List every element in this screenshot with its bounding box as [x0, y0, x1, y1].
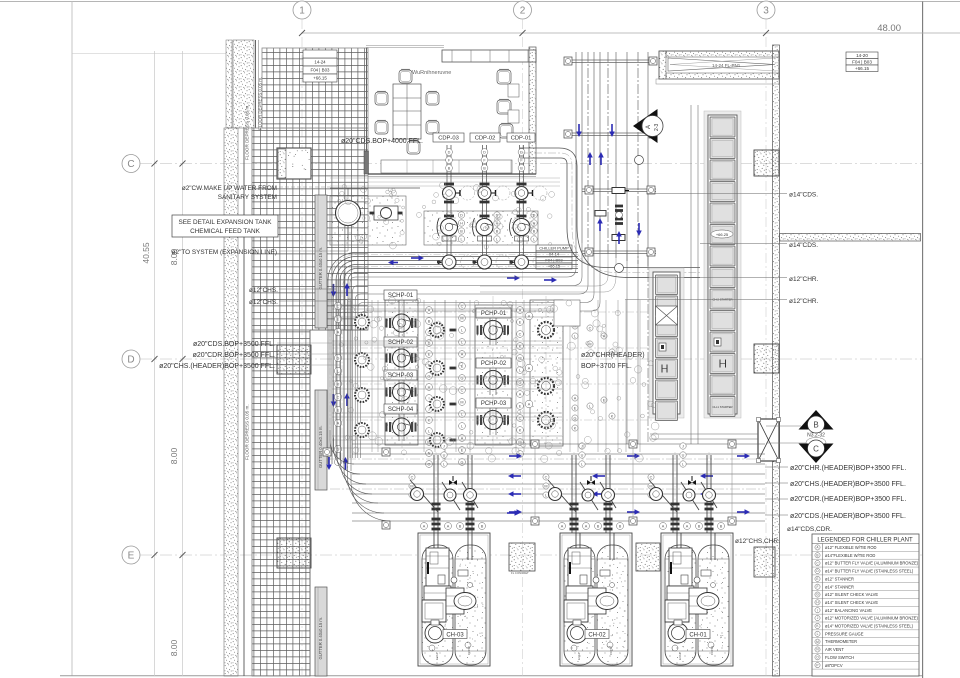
header arrows col 1: [509, 455, 517, 457]
arrow header flow left: [393, 262, 398, 264]
grid bubble 2: [514, 1, 532, 19]
svg-text:A: A: [574, 396, 577, 400]
svg-text:ø14" BUTTER FLY VALVE (STAINLE: ø14" BUTTER FLY VALVE (STAINLESS STEEL): [825, 569, 914, 574]
wall insulation band wide: [226, 40, 232, 128]
arrow riser west: [544, 279, 552, 281]
svg-text:3: 3: [763, 6, 769, 17]
svg-text:L: L: [443, 462, 445, 466]
svg-text:C: C: [545, 475, 548, 479]
svg-text:E: E: [128, 551, 135, 562]
svg-text:C: C: [127, 159, 134, 170]
svg-text:B: B: [459, 524, 462, 528]
svg-text:GUTTER 0.40x0.15 m.: GUTTER 0.40x0.15 m.: [318, 247, 323, 290]
svg-text:B: B: [720, 524, 723, 528]
svg-text:LEGENDED FOR CHILLER PLANT: LEGENDED FOR CHILLER PLANT: [817, 538, 913, 544]
svg-text:COND: COND: [467, 645, 471, 655]
svg-text:ø12" MOTORIZED VALVE (ALUMINIU: ø12" MOTORIZED VALVE (ALUMINIUM BRONZE): [825, 616, 919, 621]
svg-text:CDP-03: CDP-03: [438, 135, 459, 141]
svg-text:A: A: [662, 524, 665, 528]
svg-text:ø12"CHS,CHR.: ø12"CHS,CHR.: [735, 538, 780, 545]
svg-text:B: B: [481, 524, 484, 528]
svg-text:L: L: [581, 462, 583, 466]
svg-text:PCHP-03: PCHP-03: [481, 401, 507, 407]
riser fittings: [612, 188, 625, 194]
svg-text:E: E: [574, 406, 577, 410]
riser arrows: [578, 124, 580, 132]
opening info box: [303, 58, 337, 66]
svg-text:1: 1: [299, 6, 305, 17]
arrow left bundle down 3: [328, 457, 330, 465]
svg-text:L: L: [519, 368, 521, 372]
svg-text:CH-02: CH-02: [588, 633, 606, 639]
dimension line 40.55: [154, 51, 156, 676]
condenser pump assembly: [473, 145, 511, 269]
svg-text:ø14" SILENT CHECK VALVE: ø14" SILENT CHECK VALVE: [825, 600, 878, 605]
pump PCHP-01: [480, 325, 482, 335]
label box SCHP-03: [384, 370, 417, 380]
right wall column D: [754, 344, 779, 373]
matchline symbol: [766, 425, 801, 427]
svg-text:8.00: 8.00: [169, 639, 179, 656]
chair: [375, 92, 388, 105]
svg-text:AIR VENT: AIR VENT: [825, 647, 844, 652]
room bottom counter: [381, 160, 512, 173]
rack left X panel: [656, 306, 678, 325]
arrow header flow: [411, 257, 419, 259]
room top wall: [442, 50, 536, 62]
svg-text:WuRnihneruvne: WuRnihneruvne: [412, 70, 451, 76]
svg-text:ø12"CHS.: ø12"CHS.: [249, 287, 278, 294]
chair: [497, 70, 511, 84]
header dashdot lines: [330, 458, 765, 460]
svg-text:B: B: [448, 166, 451, 170]
grid line E: [140, 554, 922, 556]
svg-text:E: E: [461, 448, 464, 452]
svg-text:ø14" STANNER: ø14" STANNER: [825, 584, 854, 589]
grid bubble 3: [757, 1, 775, 19]
svg-text:M: M: [544, 484, 547, 488]
pump PCHP-02: [480, 375, 482, 385]
svg-text:N: N: [428, 451, 431, 455]
rack level label: [711, 230, 733, 238]
top room pipes across: [330, 177, 560, 179]
svg-text:ø2"TO SYSTEM (EXPANSION LINE): ø2"TO SYSTEM (EXPANSION LINE): [172, 249, 277, 256]
svg-text:ø12" SILENT CHECK VALVE: ø12" SILENT CHECK VALVE: [825, 592, 878, 597]
svg-text:ø20"CDS.BOP+3500 FFL.: ø20"CDS.BOP+3500 FFL.: [193, 341, 275, 348]
label box PCHP-03: [476, 398, 511, 408]
leader make up water: [279, 186, 330, 188]
svg-text:ø20"CDS.BOP+4000 FFL.: ø20"CDS.BOP+4000 FFL.: [341, 138, 423, 145]
grid line 2: [522, 19, 524, 676]
svg-text:GUTTER 0.40x0.15 m.: GUTTER 0.40x0.15 m.: [318, 617, 323, 660]
pump right column: [538, 378, 554, 394]
plant wall line: [309, 330, 311, 676]
arrow chiller top: [507, 512, 515, 514]
svg-text:GUTTER 0.40x0.15 m.: GUTTER 0.40x0.15 m.: [318, 425, 323, 468]
riser arrows mid: [599, 223, 601, 231]
svg-text:E: E: [519, 404, 522, 408]
riser elbows west: [350, 240, 576, 458]
svg-text:48.00: 48.00: [877, 23, 901, 34]
svg-text:C: C: [411, 475, 414, 479]
pump PCHP-03: [480, 415, 482, 425]
interconnect piping vertical: [371, 300, 373, 452]
svg-text:14-24: 14-24: [314, 59, 326, 64]
valve mid column 2: [459, 303, 466, 310]
label box SCHP-01: [384, 290, 417, 300]
wall line upper: [255, 40, 257, 128]
svg-text:CH-01: CH-01: [689, 633, 707, 639]
svg-text:D: D: [448, 150, 451, 154]
svg-text:F04 | B03: F04 | B03: [545, 257, 563, 262]
east riser pipes: [690, 105, 692, 444]
chair: [407, 141, 420, 154]
svg-text:B: B: [816, 553, 818, 557]
arrow left bundle down: [333, 284, 335, 292]
svg-text:A: A: [528, 314, 531, 318]
chiller pump info box: [536, 245, 572, 251]
header arrows col 2: [627, 455, 635, 457]
pipe expansion line: [330, 250, 348, 252]
mid pump column: [444, 300, 446, 460]
wall column D1: [277, 345, 311, 374]
pump SCHP-01: [389, 318, 391, 328]
legend rows: [815, 545, 820, 550]
arrow left bundle up 3: [345, 462, 347, 470]
svg-text:E: E: [519, 320, 522, 324]
room left wall line: [366, 48, 368, 151]
svg-text:SANITARY SYSTEM: SANITARY SYSTEM: [218, 194, 277, 201]
svg-text:F04 | B03: F04 | B03: [852, 59, 872, 64]
right wall horizontal: [780, 234, 921, 242]
svg-text:E: E: [603, 398, 606, 402]
floor slab hatch lower: [252, 330, 310, 676]
header valve boxes: [323, 448, 331, 456]
svg-text:A: A: [528, 402, 531, 406]
svg-text:J: J: [682, 444, 684, 448]
pipe 12CHR b: [625, 299, 787, 301]
svg-text:F04 | B03: F04 | B03: [311, 67, 331, 72]
svg-text:ø14"FLEXIBLE W/TIE ROD: ø14"FLEXIBLE W/TIE ROD: [825, 553, 875, 558]
valve column left of SCHP: [334, 302, 341, 309]
header letter columns: [409, 474, 415, 480]
page border bottom: [60, 675, 922, 677]
chair: [499, 124, 513, 138]
header right stubs: [765, 466, 788, 468]
pump right column: [538, 322, 554, 338]
valve column right of PCHP: [517, 307, 524, 314]
riser bundle from louver: [575, 52, 577, 240]
svg-text:F: F: [817, 585, 819, 589]
valve mid column 1: [426, 307, 433, 314]
grid bubble E: [122, 546, 140, 564]
label box PCHP-01: [476, 308, 511, 318]
svg-text:D: D: [460, 213, 463, 217]
svg-text:ø12"CHS.: ø12"CHS.: [249, 299, 278, 306]
svg-text:THERMOMETER: THERMOMETER: [825, 639, 857, 644]
svg-text:K: K: [428, 418, 431, 422]
wall block at room: [554, 300, 580, 326]
svg-text:FLOOR DEPRESS 0.05 m.: FLOOR DEPRESS 0.05 m.: [245, 104, 250, 160]
arrow left bundle up: [346, 288, 348, 296]
svg-text:EVAP: EVAP: [435, 652, 439, 660]
svg-text:2: 2: [520, 6, 526, 17]
condenser pump assembly: [437, 145, 475, 269]
pipe 12CHR a: [625, 277, 787, 279]
label box CDP-01: [507, 133, 535, 142]
riser drop to headers: [626, 250, 628, 444]
svg-text:ø12"CHR.: ø12"CHR.: [789, 276, 819, 283]
pipe 14CDS b: [700, 243, 787, 245]
pad between chillers 2: [636, 543, 660, 571]
svg-text:SEE DETAIL EXPANSION TANK: SEE DETAIL EXPANSION TANK: [178, 219, 272, 226]
svg-text:O: O: [428, 462, 431, 466]
chemical feed pump: [374, 206, 398, 220]
svg-text:8.00: 8.00: [169, 447, 179, 464]
svg-text:+66.15: +66.15: [855, 66, 870, 71]
svg-text:FLOOR DEPRESS 0.05 m.: FLOOR DEPRESS 0.05 m.: [245, 404, 250, 460]
svg-text:B: B: [813, 421, 818, 430]
svg-text:D: D: [483, 150, 486, 154]
pump SCHP-03: [389, 387, 391, 397]
svg-text:B: B: [698, 524, 701, 528]
pump SCHP-04: [389, 422, 391, 432]
svg-text:EVAP: EVAP: [678, 652, 682, 660]
wall line inner: [251, 128, 253, 676]
svg-text:14-24 FL-PN1: 14-24 FL-PN1: [712, 63, 741, 68]
svg-text:D: D: [520, 150, 523, 154]
section flag: [633, 109, 658, 143]
chiller tree CH-02: [571, 455, 573, 533]
svg-text:PRESSURE GAUGE: PRESSURE GAUGE: [825, 631, 864, 636]
dim start line: [72, 53, 226, 55]
svg-text:L: L: [589, 404, 591, 408]
chiller CH-01: [661, 533, 733, 666]
svg-text:B: B: [619, 524, 622, 528]
svg-text:K: K: [519, 428, 522, 432]
svg-text:L: L: [682, 462, 684, 466]
grid line D: [140, 358, 922, 360]
piping detail noise: [435, 321, 441, 327]
right pump column pad: [530, 300, 563, 446]
svg-text:ø12" BUTTER FLY VALVE (ALUMINI: ø12" BUTTER FLY VALVE (ALUMINIUM BRONZE): [825, 561, 919, 566]
right wall column E: [754, 547, 775, 577]
arrow header flow 2: [507, 277, 515, 279]
wall insulation band: [224, 128, 238, 676]
svg-text:A: A: [603, 334, 606, 338]
svg-text:ø14"CDS.: ø14"CDS.: [789, 242, 818, 249]
svg-text:ø12"CHR.: ø12"CHR.: [789, 298, 819, 305]
legend table: [812, 534, 919, 676]
svg-text:L: L: [545, 493, 547, 497]
svg-text:+66.25: +66.25: [716, 232, 729, 237]
svg-text:A: A: [646, 125, 652, 129]
svg-text:L: L: [817, 632, 819, 636]
svg-text:ø14"CDS,CDR.: ø14"CDS,CDR.: [787, 526, 832, 533]
svg-text:I: I: [817, 608, 818, 612]
svg-text:ø20"CHS.(HEADER)BOP+3500 FFL.: ø20"CHS.(HEADER)BOP+3500 FFL.: [790, 481, 906, 488]
svg-text:ø12" BALANCING VALVE: ø12" BALANCING VALVE: [825, 608, 872, 613]
svg-text:ø20"CHR(HEADER): ø20"CHR(HEADER): [581, 352, 645, 359]
label box PCHP-02: [476, 358, 511, 368]
pump right column: [538, 412, 554, 428]
svg-text:CH-03: CH-03: [446, 633, 464, 639]
page border top: [0, 1, 960, 3]
room right wall: [529, 47, 536, 174]
circled A markers: [525, 312, 533, 320]
pad between chillers 1: [509, 543, 535, 571]
svg-text:D: D: [127, 355, 134, 366]
riser anchor bottom: [566, 132, 655, 134]
damper feed pipes: [650, 433, 758, 435]
expansion tank: [336, 201, 361, 226]
svg-text:FL CONCRET: FL CONCRET: [511, 571, 529, 575]
svg-text:ø12" STANNER: ø12" STANNER: [825, 576, 854, 581]
chiller CH-02: [560, 533, 632, 666]
expansion tank pad: [330, 196, 406, 245]
strainer column: [355, 315, 369, 329]
svg-text:C: C: [650, 475, 653, 479]
grid bubble C: [122, 155, 140, 173]
label box CDP-02: [470, 133, 500, 142]
chair: [399, 70, 412, 83]
east valve cluster: [572, 313, 578, 319]
svg-text:BOP+3700 FFL.: BOP+3700 FFL.: [581, 363, 632, 370]
svg-text:I: I: [428, 396, 429, 400]
svg-text:CH-1 STARTER: CH-1 STARTER: [712, 405, 732, 409]
gutter: [315, 195, 327, 328]
see detail box: [172, 215, 278, 237]
top header centerline: [330, 255, 578, 461]
inline pump CDP-02: [478, 255, 492, 269]
door pad top: [277, 148, 311, 179]
tree centerlines: [435, 452, 437, 660]
grid bubble 1: [293, 1, 311, 19]
svg-text:A: A: [585, 524, 588, 528]
svg-text:L: L: [461, 424, 463, 428]
header valve connectors: [534, 448, 536, 517]
condenser pump assembly: [510, 145, 548, 269]
interconnect piping horizontal: [332, 304, 562, 306]
svg-text:L: L: [574, 334, 576, 338]
gutter: [315, 587, 327, 676]
grid line C: [140, 163, 922, 165]
starter rack pad right: [704, 111, 741, 418]
bottom header pipes: [352, 443, 765, 445]
right wall band: [773, 45, 780, 676]
louver frame below: [656, 79, 779, 84]
chiller tree CH-03: [433, 455, 435, 533]
svg-text:2-3: 2-3: [654, 124, 660, 131]
svg-text:A: A: [447, 524, 450, 528]
svg-text:J: J: [428, 407, 430, 411]
page border left: [71, 2, 73, 677]
svg-text:COND: COND: [710, 645, 714, 655]
gutter: [315, 390, 327, 490]
riser anchor mid 1: [582, 188, 656, 190]
svg-text:FLOW SWITCH: FLOW SWITCH: [825, 655, 854, 660]
svg-text:B: B: [496, 229, 499, 233]
svg-text:B: B: [533, 229, 536, 233]
svg-text:M: M: [410, 484, 413, 488]
svg-text:CHILLER PUMP: CHILLER PUMP: [539, 245, 569, 250]
chair: [497, 100, 511, 114]
left vertical bundle: [329, 288, 331, 450]
svg-text:L: L: [460, 237, 462, 241]
title box: [846, 52, 878, 59]
svg-text:G: G: [428, 374, 431, 378]
PCHP pump pad: [475, 305, 512, 445]
svg-text:ø2"CW.MAKE UP WATER FROM: ø2"CW.MAKE UP WATER FROM: [182, 185, 277, 192]
pipe 14CDS: [647, 193, 787, 195]
svg-text:SCHP-01: SCHP-01: [388, 293, 414, 299]
svg-text:ø8"DPCV: ø8"DPCV: [825, 663, 843, 668]
top header pipes: [328, 253, 578, 465]
workshop table: [393, 84, 421, 139]
svg-text:ø20"CDR.(HEADER)BOP+3500 FFL.: ø20"CDR.(HEADER)BOP+3500 FFL.: [790, 496, 906, 503]
label box SCHP-02: [384, 337, 417, 347]
svg-text:+66.15: +66.15: [548, 263, 561, 268]
SCHP pump pad: [385, 300, 418, 445]
riser anchor top: [566, 59, 655, 61]
svg-text:CDP-01: CDP-01: [511, 135, 532, 141]
label box SCHP-04: [384, 404, 417, 414]
wall column C1: [277, 148, 311, 179]
svg-text:04-14: 04-14: [549, 251, 560, 256]
svg-text:ø14" MOTORIZED VALVE (STAINLES: ø14" MOTORIZED VALVE (STAINLESS STEEL): [825, 624, 914, 629]
grid line 1: [301, 19, 303, 676]
svg-text:U: U: [581, 453, 584, 457]
svg-text:L: L: [533, 237, 535, 241]
arrow left bundle up 2: [346, 398, 348, 406]
svg-text:K: K: [611, 414, 614, 418]
svg-text:L: L: [496, 237, 498, 241]
floor slab hatch upper: [262, 48, 368, 128]
svg-text:A: A: [423, 524, 426, 528]
side table: [508, 84, 519, 97]
wall line outer: [243, 128, 245, 676]
svg-text:G: G: [574, 416, 577, 420]
svg-text:L: L: [461, 328, 463, 332]
bottom header elbows: [330, 430, 354, 464]
svg-text:14-20: 14-20: [856, 53, 868, 58]
starter rack pad left: [649, 268, 684, 418]
svg-text:C: C: [813, 445, 819, 454]
louver: [659, 51, 779, 79]
chair: [375, 121, 388, 134]
dimension line 8.00: [182, 51, 184, 676]
chiller CH-03: [418, 533, 490, 666]
svg-text:B: B: [597, 524, 600, 528]
svg-text:K: K: [574, 426, 577, 430]
svg-text:SCHP-04: SCHP-04: [388, 407, 414, 413]
svg-text:M: M: [649, 484, 652, 488]
svg-text:J: J: [581, 444, 583, 448]
svg-text:ø20"CDS.(HEADER)BOP+3500 FFL.: ø20"CDS.(HEADER)BOP+3500 FFL.: [790, 513, 906, 520]
inline pump CDP-01: [515, 255, 529, 269]
svg-text:C: C: [519, 332, 522, 336]
svg-text:P: P: [816, 663, 818, 667]
svg-text:J: J: [443, 444, 445, 448]
svg-text:M: M: [460, 400, 463, 404]
dimension line 48.00: [302, 32, 960, 34]
svg-text:ø12" FLEXIBLE W/TIE ROD: ø12" FLEXIBLE W/TIE ROD: [825, 545, 877, 550]
svg-text:A: A: [528, 366, 531, 370]
svg-text:CDP-02: CDP-02: [475, 135, 496, 141]
svg-text:A: A: [519, 392, 522, 396]
big CDS pipe elbow: [520, 148, 700, 278]
svg-text:H: H: [496, 221, 499, 225]
